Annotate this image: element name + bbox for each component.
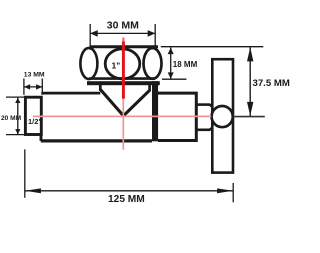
svg-text:1/2": 1/2": [28, 117, 42, 126]
svg-text:125 MM: 125 MM: [108, 194, 145, 205]
svg-text:13 MM: 13 MM: [24, 72, 45, 79]
svg-text:30 MM: 30 MM: [107, 20, 139, 32]
svg-text:20 MM: 20 MM: [1, 115, 22, 122]
svg-text:37.5 MM: 37.5 MM: [253, 78, 290, 89]
svg-text:18 MM: 18 MM: [173, 60, 198, 69]
svg-text:1": 1": [112, 61, 121, 71]
